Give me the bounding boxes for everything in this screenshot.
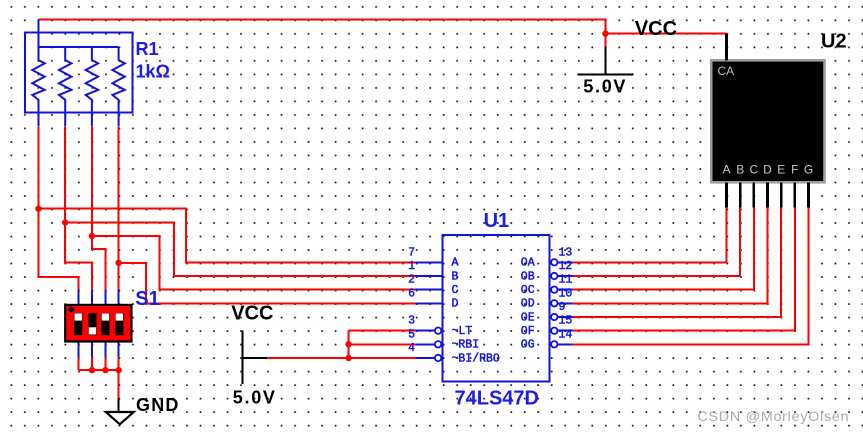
wires U1 outputs to U2 segments [572, 208, 808, 345]
svg-text:OD: OD [521, 298, 535, 311]
display U2 segment pins A-G [727, 182, 809, 207]
svg-text:5: 5 [408, 328, 415, 341]
wire top rail drop to VCC node [604, 18, 606, 33]
svg-text:~RBI: ~RBI [452, 339, 480, 352]
U1 pin numbers [408, 246, 572, 355]
ground symbol [106, 412, 134, 424]
junction VCC node [602, 30, 608, 36]
svg-text:VCC: VCC [231, 303, 273, 325]
ground lead [118, 398, 120, 412]
svg-text:6: 6 [408, 287, 415, 300]
svg-text:D: D [763, 162, 772, 176]
svg-text:11: 11 [559, 274, 573, 287]
junction S1 bus 3 [102, 367, 108, 373]
wire VCC node to display CA pin [605, 33, 726, 35]
junction node B [62, 219, 68, 225]
svg-text:10: 10 [559, 287, 573, 300]
svg-text:C: C [749, 162, 758, 176]
svg-text:A: A [722, 162, 730, 176]
op-amp U1 box [442, 235, 549, 381]
svg-text:B: B [736, 162, 744, 176]
svg-text:OG: OG [521, 339, 535, 352]
svg-text:13: 13 [559, 246, 573, 259]
wire S1 common bus [79, 369, 119, 371]
svg-text:F: F [791, 162, 798, 176]
power VCC2 bar [242, 330, 244, 384]
switch S1 pins [79, 290, 119, 358]
svg-text:4: 4 [408, 342, 415, 355]
svg-text:3: 3 [408, 315, 415, 328]
U1 pin labels [452, 257, 535, 366]
svg-text:~BI/RBO: ~BI/RBO [452, 352, 500, 365]
svg-text:B: B [452, 270, 459, 283]
display U2 CA pin [725, 34, 728, 61]
svg-text:9: 9 [559, 301, 566, 314]
resistor R1 box [25, 33, 132, 113]
svg-text:~LT: ~LT [452, 325, 473, 338]
junction S1 bus 2 [89, 367, 95, 373]
wire net B staircase [65, 223, 415, 277]
resistor R1 element 2 [59, 47, 71, 127]
wire R1b down [65, 126, 92, 290]
svg-text:C: C [452, 284, 459, 297]
wire to LT [349, 330, 416, 332]
svg-text:E: E [777, 162, 785, 176]
wire to RBI [349, 343, 416, 345]
U1 input pins A-D [416, 262, 443, 303]
wire to ground [118, 370, 120, 398]
resistor R1 top bus [39, 46, 119, 48]
wire VCC2 to BI/RBO [267, 357, 416, 359]
resistor R1 top pin [38, 19, 40, 47]
svg-text:1: 1 [408, 260, 415, 273]
switch S1 pin1 marker [68, 306, 75, 313]
svg-text:12: 12 [559, 260, 573, 273]
svg-text:1kΩ: 1kΩ [136, 61, 170, 81]
wire net D staircase [119, 263, 416, 304]
U1 control pins with bubbles [416, 328, 442, 362]
svg-text:D: D [452, 298, 459, 311]
junction node A [35, 206, 41, 212]
wire net C staircase [92, 236, 416, 290]
resistor R1 element 1 [32, 47, 44, 127]
svg-text:15: 15 [559, 315, 573, 328]
svg-text:S1: S1 [135, 288, 159, 310]
svg-text:5.0V: 5.0V [583, 77, 627, 97]
svg-text:14: 14 [559, 328, 573, 341]
svg-text:U1: U1 [484, 210, 510, 232]
label display segment letters [722, 162, 813, 176]
wire control riser [348, 331, 350, 358]
power VCC2 lead [243, 357, 267, 359]
junction node C [89, 233, 95, 239]
svg-text:A: A [452, 257, 459, 270]
switch S1 toggles [74, 313, 123, 335]
display U2 body [711, 60, 824, 182]
svg-text:G: G [804, 162, 813, 176]
junction BI/RBO [345, 355, 351, 361]
wire R1a down [39, 126, 79, 290]
svg-text:U2: U2 [821, 31, 847, 53]
power VCC lead [604, 47, 606, 75]
svg-text:R1: R1 [136, 39, 159, 59]
junction node D [115, 260, 121, 266]
svg-text:CA: CA [718, 64, 735, 78]
wire VCC node stub down [604, 34, 606, 47]
svg-text:OF: OF [521, 325, 535, 338]
svg-text:VCC: VCC [635, 18, 677, 40]
switch S1 body [65, 305, 131, 342]
svg-text:OB: OB [521, 270, 535, 283]
junction S1 bus 4 [116, 367, 122, 373]
wire R1c down [92, 126, 106, 290]
svg-text:5.0V: 5.0V [233, 388, 277, 408]
resistor R1 element 4 [112, 47, 124, 127]
svg-text:CSDN @MorleyOlsen: CSDN @MorleyOlsen [698, 409, 850, 425]
wire VCC top rail [39, 18, 606, 20]
svg-text:74LS47D: 74LS47D [455, 387, 540, 409]
power VCC bar [578, 73, 634, 75]
U1 output pins with bubbles [551, 259, 572, 347]
junction RBI [345, 341, 351, 347]
svg-text:7: 7 [408, 246, 415, 259]
wire S1 bottom leads [79, 357, 119, 370]
svg-text:OC: OC [521, 284, 535, 297]
svg-text:OA: OA [521, 257, 535, 270]
svg-text:OE: OE [521, 311, 535, 324]
svg-text:2: 2 [408, 274, 415, 287]
svg-text:GND: GND [136, 395, 180, 415]
resistor R1 element 3 [86, 47, 98, 127]
wire R1d down [118, 126, 120, 290]
wire net A staircase [39, 209, 416, 263]
